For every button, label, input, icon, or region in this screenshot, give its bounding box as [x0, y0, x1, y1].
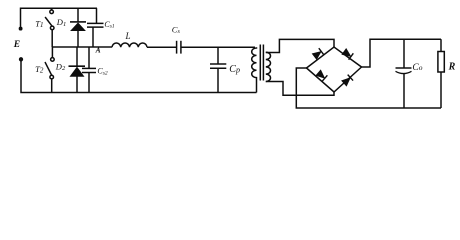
svg-text:D2: D2 [55, 61, 66, 72]
svg-text:Cp: Cp [229, 64, 240, 75]
svg-text:T1: T1 [35, 19, 43, 29]
svg-text:Cs2: Cs2 [97, 67, 107, 77]
svg-text:L: L [125, 31, 131, 41]
svg-text:A: A [95, 46, 101, 55]
svg-text:Cs1: Cs1 [104, 20, 114, 30]
svg-text:E: E [13, 40, 20, 50]
svg-text:Cs: Cs [172, 24, 181, 35]
svg-text:T2: T2 [35, 64, 44, 74]
svg-text:R: R [448, 62, 456, 73]
svg-text:D1: D1 [56, 17, 66, 28]
svg-text:Co: Co [412, 63, 422, 73]
